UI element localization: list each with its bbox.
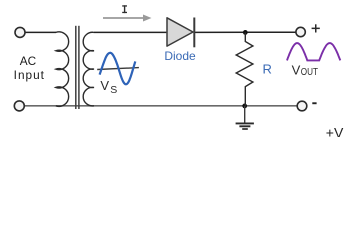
svg-text:Input: Input xyxy=(14,68,45,82)
svg-text:R: R xyxy=(263,62,272,77)
svg-text:V: V xyxy=(100,78,109,93)
svg-text:+V: +V xyxy=(326,125,344,137)
svg-text:V: V xyxy=(292,62,301,77)
svg-text:AC: AC xyxy=(20,54,37,68)
svg-text:S: S xyxy=(110,84,117,96)
svg-text:OUT: OUT xyxy=(301,67,318,78)
svg-text:Diode: Diode xyxy=(164,49,196,63)
